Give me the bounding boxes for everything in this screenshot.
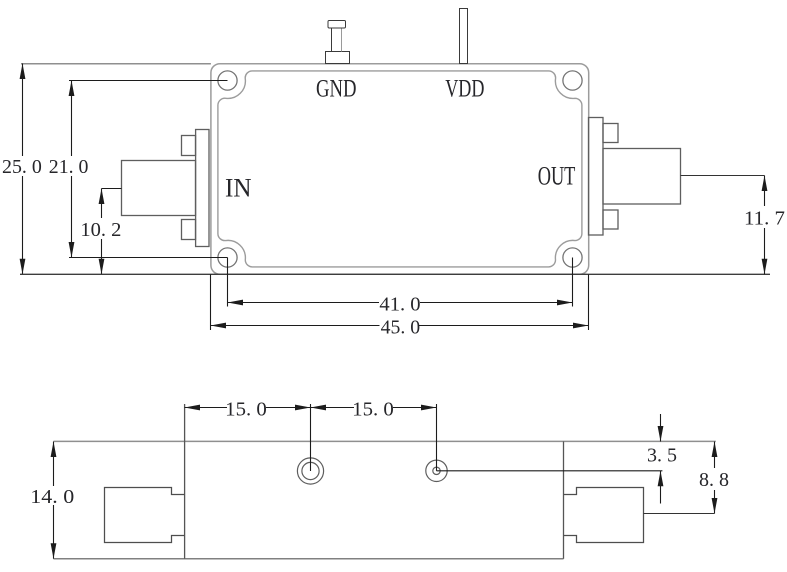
arrow 25.0 up: [20, 64, 26, 80]
OUT connector center pin line: [681, 175, 765, 177]
dim 11.7 line: [764, 176, 766, 207]
left connector profile: [105, 488, 185, 543]
hole 1 outer: [297, 458, 323, 484]
dim 41.0 extension right: [572, 258, 574, 307]
OUT connector body: [603, 149, 681, 205]
arrow 11.7 up: [762, 176, 768, 192]
OUT connector screw bottom: [603, 210, 618, 229]
GND terminal pin: [326, 21, 350, 64]
hole 2 center extension: [436, 404, 438, 471]
arrow 15.0a right: [295, 405, 311, 411]
svg-text:25. 0: 25. 0: [2, 156, 42, 178]
svg-text:OUT: OUT: [538, 161, 576, 190]
screw hole top-left: [218, 71, 237, 90]
hole 2 outer: [426, 460, 447, 481]
case outer outline: [211, 64, 589, 275]
dim 14.0 line: [53, 442, 55, 487]
right connector profile: [564, 488, 644, 543]
baseline bottom edge extended: [20, 273, 770, 275]
OUT connector (right SMA): [589, 118, 765, 236]
body right wall: [563, 441, 565, 558]
dim 45.0 extension right: [588, 274, 590, 330]
arrow 41.0 right: [557, 300, 573, 306]
svg-text:41. 0: 41. 0: [379, 294, 420, 316]
dim 41.0 line: [228, 302, 380, 304]
hole 1 inner: [302, 462, 319, 479]
arrow 21.0 down: [69, 242, 75, 258]
dim 15.0 second line: [311, 407, 355, 409]
dim 45.0 extension left: [210, 274, 212, 330]
svg-text:21. 0: 21. 0: [49, 156, 89, 178]
screw hole bottom-right: [563, 248, 582, 267]
arrow 3.5 down (above edge): [658, 426, 664, 442]
svg-text:11. 7: 11. 7: [744, 207, 785, 229]
arrow 3.5 up (below hole line): [658, 471, 664, 487]
arrow 15.0a left: [185, 405, 201, 411]
arrow 45.0 right: [573, 323, 589, 329]
IN connector screw bottom: [182, 220, 196, 240]
dim 21.0 extension top: [69, 80, 228, 82]
arrow 8.8 down: [712, 498, 718, 514]
svg-text:3. 5: 3. 5: [647, 445, 677, 467]
arrow 8.8 up: [712, 442, 718, 458]
arrow 10.2 up: [99, 189, 105, 205]
IN connector (left SMA): [122, 130, 210, 247]
hole 2 horizontal extension: [437, 470, 663, 472]
svg-text:15. 0: 15. 0: [352, 399, 394, 421]
dim 3.5 lower leader: [660, 471, 662, 504]
dim 45.0 line: [211, 325, 380, 327]
hole 2 inner: [433, 467, 440, 474]
dim 21.0 extension bottom: [69, 257, 228, 259]
svg-text:15. 0: 15. 0: [225, 399, 267, 421]
screw hole bottom-left: [218, 248, 237, 267]
arrow 15.0b right: [421, 405, 437, 411]
OUT connector mounting plate: [589, 118, 604, 236]
dim 15.0 first line: [185, 407, 228, 409]
IN connector screw top: [182, 136, 196, 156]
dim 8.8 line: [714, 442, 716, 469]
dim 25.0 line: [22, 64, 24, 157]
body bottom edge: [54, 558, 564, 560]
right connector pin line: [644, 513, 715, 515]
VDD terminal pin: [460, 9, 468, 64]
IN connector mounting plate: [196, 130, 209, 247]
dim 10.2 line: [101, 189, 103, 219]
arrow 15.0b left: [311, 405, 327, 411]
svg-text:VDD: VDD: [445, 74, 484, 103]
body left wall: [184, 404, 186, 559]
IN connector body: [122, 161, 196, 216]
dim 21.0 line: [71, 81, 73, 157]
screw hole top-right: [563, 71, 582, 90]
OUT connector screw top: [603, 124, 618, 143]
svg-text:IN: IN: [225, 173, 252, 203]
svg-text:14. 0: 14. 0: [30, 486, 74, 508]
svg-text:10. 2: 10. 2: [80, 219, 121, 241]
dim 25.0 extension top: [21, 63, 211, 65]
arrow 10.2 down: [99, 259, 105, 275]
dim 10.2 extension top: [102, 188, 122, 190]
svg-text:45. 0: 45. 0: [381, 316, 421, 338]
arrow 21.0 up: [69, 81, 75, 97]
case inner lid outline with screw bosses: [218, 71, 582, 267]
arrow 11.7 down: [762, 259, 768, 275]
svg-text:8. 8: 8. 8: [699, 469, 729, 491]
hole 1 center extension: [310, 404, 312, 471]
body top edge with extensions: [54, 440, 716, 442]
arrow 41.0 left: [228, 300, 244, 306]
svg-text:GND: GND: [316, 74, 357, 103]
arrow 45.0 left: [211, 323, 227, 329]
dim 41.0 extension left: [227, 258, 229, 307]
arrow 14.0 down: [51, 543, 57, 559]
arrow 14.0 up: [51, 442, 57, 458]
dim 3.5 upper leader: [660, 414, 662, 442]
arrow 25.0 down: [20, 259, 26, 275]
